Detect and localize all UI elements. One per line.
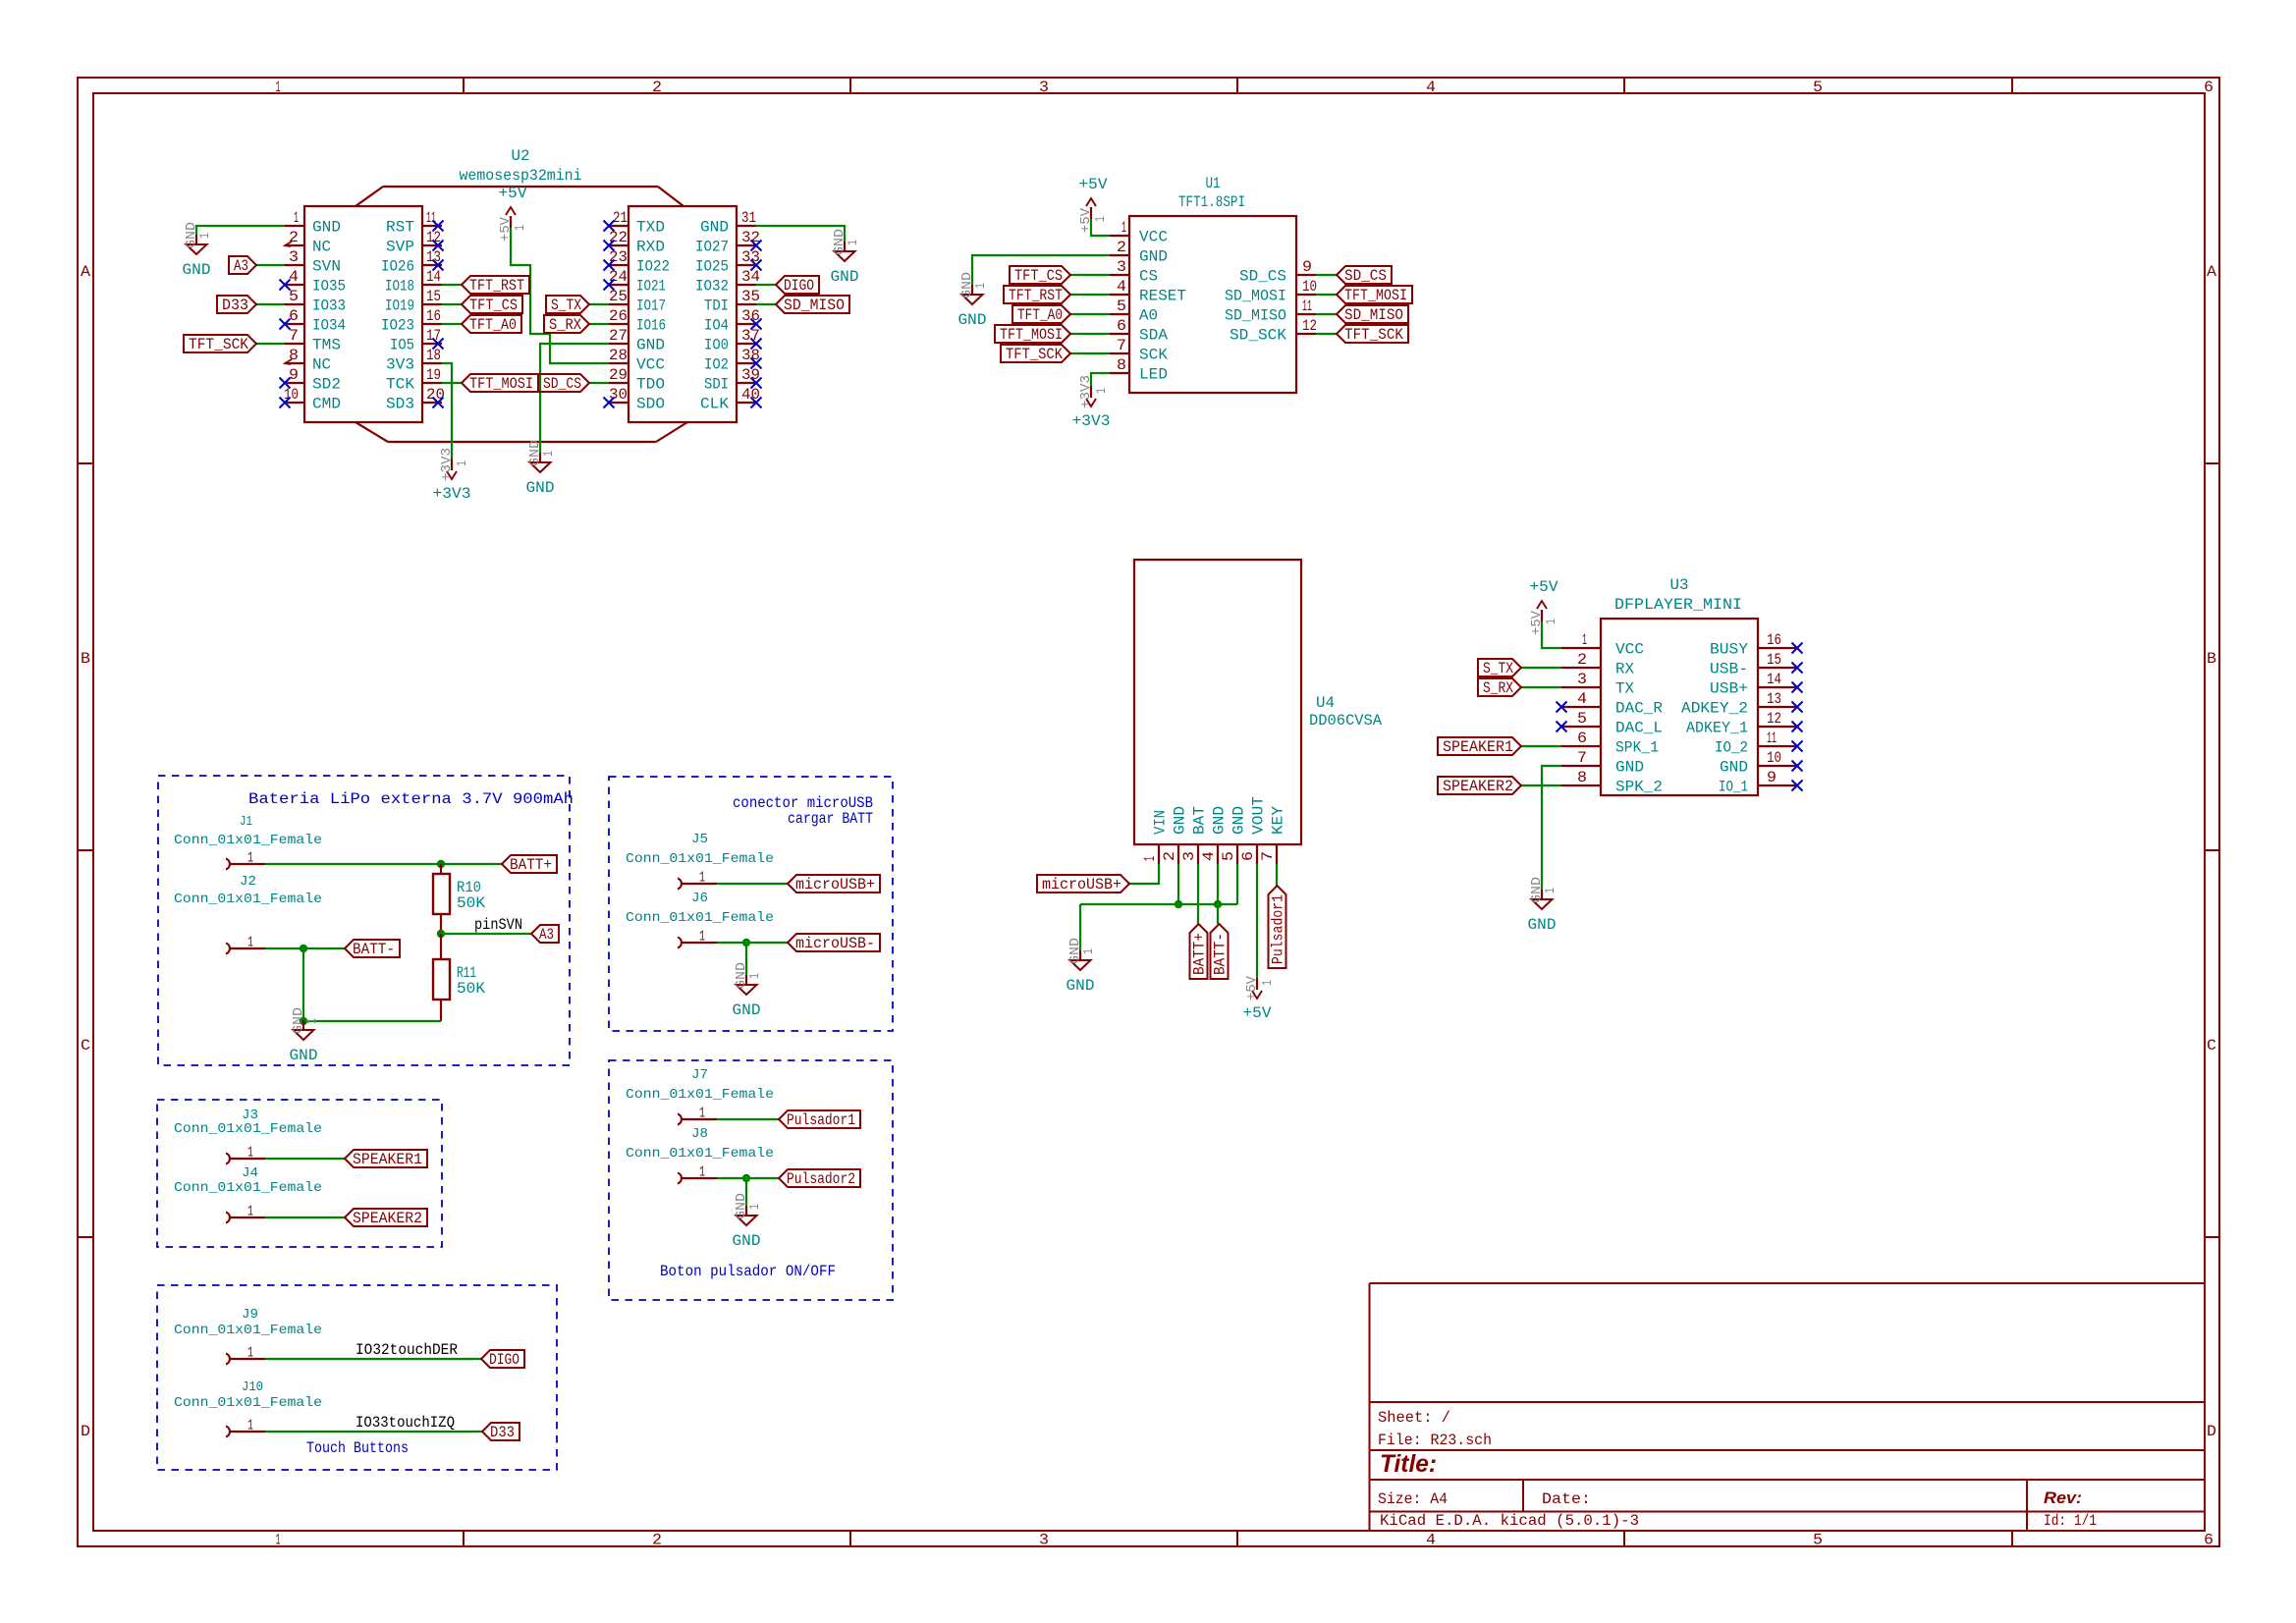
svg-text:1: 1 <box>1544 619 1559 624</box>
U2 pin 9 SD2 <box>285 366 341 394</box>
svg-text:TFT_CS: TFT_CS <box>469 297 518 314</box>
svg-text:IO25: IO25 <box>695 258 729 276</box>
svg-text:Conn_01x01_Female: Conn_01x01_Female <box>174 1395 322 1411</box>
svg-text:TXD: TXD <box>636 219 665 237</box>
svg-text:VIN: VIN <box>1152 810 1170 835</box>
svg-text:GND: GND <box>290 1047 318 1064</box>
svg-text:1: 1 <box>276 1532 281 1549</box>
global label Pulsador2 at J8 <box>779 1169 860 1188</box>
U4 pin 6 VOUT <box>1239 796 1268 864</box>
svg-text:D33: D33 <box>490 1424 515 1441</box>
svg-text:1: 1 <box>247 1345 253 1362</box>
svg-text:wemosesp32mini: wemosesp32mini <box>460 167 582 185</box>
wire stub U2 pin16 <box>442 323 462 325</box>
wire J10 to D33 <box>265 1431 482 1433</box>
svg-text:J1: J1 <box>240 814 252 830</box>
svg-text:1: 1 <box>973 283 989 289</box>
svg-text:1: 1 <box>747 973 763 979</box>
power +5V below U4 <box>1243 975 1277 1022</box>
global label SPEAKER1 at U3 <box>1438 737 1521 756</box>
junction at battery ground <box>300 1017 307 1025</box>
ground GND below U3 <box>1528 877 1559 934</box>
svg-text:microUSB+: microUSB+ <box>1042 876 1121 893</box>
svg-text:1: 1 <box>1093 216 1109 222</box>
svg-text:IO21: IO21 <box>636 278 666 296</box>
svg-text:1: 1 <box>1121 219 1126 237</box>
U1 pin 10 SD_MOSI <box>1225 278 1317 305</box>
svg-text:1: 1 <box>1260 980 1276 986</box>
wire stub D33 to U2 pin5 <box>256 303 285 305</box>
ground GND in battery box <box>290 1007 321 1064</box>
svg-text:5: 5 <box>289 288 299 305</box>
svg-text:10: 10 <box>1767 749 1781 767</box>
wire stub U2 pin25 <box>589 303 609 305</box>
global label TFT_MOSI at U1 left <box>995 325 1070 344</box>
module U2 wemosesp32mini outline <box>304 147 737 442</box>
svg-text:J10: J10 <box>242 1380 263 1395</box>
svg-text:Size: A4: Size: A4 <box>1378 1490 1448 1508</box>
U2 pin 18 3V3 <box>386 347 442 374</box>
svg-text:15: 15 <box>426 288 441 305</box>
wire stub U2 pin35 <box>756 303 776 305</box>
global label microUSB+ at U4 <box>1037 875 1129 893</box>
wire J7 to Pulsador1 <box>717 1118 779 1120</box>
svg-text:DIGO: DIGO <box>784 277 814 295</box>
svg-text:5: 5 <box>1220 851 1237 861</box>
svg-text:14: 14 <box>1767 671 1781 688</box>
U1 pin 9 SD_CS <box>1239 258 1316 286</box>
svg-text:7: 7 <box>1259 851 1277 861</box>
svg-text:DAC_R: DAC_R <box>1615 700 1663 718</box>
svg-text:3: 3 <box>1117 258 1126 276</box>
svg-text:3: 3 <box>1180 851 1198 861</box>
svg-text:9: 9 <box>1302 258 1312 276</box>
svg-text:Pulsador2: Pulsador2 <box>787 1170 855 1188</box>
U1 pin 6 SDA <box>1110 317 1168 345</box>
svg-text:TDI: TDI <box>704 298 729 315</box>
U1 pin 12 SD_SCK <box>1230 317 1317 345</box>
wire U2 pin1 to GND <box>196 226 285 235</box>
svg-text:25: 25 <box>609 288 628 305</box>
svg-text:TFT_CS: TFT_CS <box>1014 267 1063 285</box>
U4 pin 1 VIN <box>1141 810 1170 864</box>
U4 pin 7 KEY <box>1259 806 1287 864</box>
wire U1 pin2 to GND <box>972 255 1110 285</box>
svg-text:D: D <box>81 1423 90 1440</box>
power +5V at U1 <box>1078 176 1109 233</box>
svg-text:Conn_01x01_Female: Conn_01x01_Female <box>174 892 322 907</box>
svg-text:1: 1 <box>699 929 705 946</box>
svg-text:IO32: IO32 <box>695 278 729 296</box>
wire stub U2 pin26 <box>589 323 609 325</box>
svg-text:21: 21 <box>613 209 628 227</box>
global label S_TX at U3 <box>1478 659 1521 677</box>
svg-text:1: 1 <box>846 240 861 245</box>
U2 pin 1 GND <box>285 209 341 237</box>
global label BATT+ <box>502 855 557 874</box>
svg-text:microUSB-: microUSB- <box>795 935 875 952</box>
svg-text:A: A <box>2207 263 2216 281</box>
U4 pin 2 GND <box>1161 806 1189 864</box>
wire stub U1 TFT_SCK right <box>1316 333 1337 335</box>
svg-text:GND: GND <box>1066 977 1095 995</box>
svg-text:2: 2 <box>652 1532 662 1549</box>
wire J5 to microUSB+ <box>717 883 788 885</box>
svg-text:Conn_01x01_Female: Conn_01x01_Female <box>626 1087 774 1103</box>
svg-text:4: 4 <box>1426 79 1436 96</box>
note box speakers <box>157 1100 442 1247</box>
IC U1 TFT1.8SPI body <box>1129 175 1296 393</box>
wire U1 pin8 LED to 3V3 <box>1091 373 1110 386</box>
wire J1 to BATT+ <box>265 863 502 865</box>
svg-text:GND: GND <box>1528 916 1557 934</box>
junction at R10 bottom <box>437 930 445 938</box>
svg-text:4: 4 <box>1426 1532 1436 1549</box>
U2 pin 5 IO33 <box>285 288 346 315</box>
connector J4 Conn_01x01_Female <box>174 1165 322 1223</box>
svg-text:Conn_01x01_Female: Conn_01x01_Female <box>174 1323 322 1338</box>
U2 pin 15 IO19 <box>385 288 442 315</box>
svg-text:SD3: SD3 <box>386 396 414 413</box>
U3 pin 7 GND <box>1561 749 1644 777</box>
svg-text:Date:: Date: <box>1542 1490 1591 1508</box>
svg-text:BATT+: BATT+ <box>1191 933 1209 975</box>
wire to BATT- label <box>1217 904 1219 924</box>
svg-text:3: 3 <box>289 248 299 266</box>
svg-text:GND: GND <box>1211 806 1229 835</box>
svg-text:4: 4 <box>289 268 299 286</box>
connector J7 Conn_01x01_Female <box>626 1067 774 1125</box>
wire U2 pin18 3V3 <box>442 363 452 459</box>
svg-text:Conn_01x01_Female: Conn_01x01_Female <box>174 1121 322 1137</box>
svg-text:1: 1 <box>197 233 213 239</box>
connector J1 Conn_01x01_Female <box>174 814 322 870</box>
U1 pin 2 GND <box>1110 239 1168 266</box>
svg-text:27: 27 <box>609 327 628 345</box>
power +5V at U2 <box>498 185 528 242</box>
ground GND in microUSB box <box>733 962 764 1019</box>
svg-text:SD_SCK: SD_SCK <box>1230 327 1286 345</box>
wire U4 pin6 VOUT to +5V <box>1256 864 1258 978</box>
svg-text:RST: RST <box>386 219 414 237</box>
svg-text:microUSB+: microUSB+ <box>795 876 875 893</box>
svg-text:TFT_RST: TFT_RST <box>1009 287 1063 304</box>
U4 pin 3 BAT <box>1180 806 1209 864</box>
svg-text:6: 6 <box>1239 851 1257 861</box>
U2 pin 36 IO4 <box>704 307 760 335</box>
svg-text:TX: TX <box>1615 680 1634 698</box>
svg-text:+5V: +5V <box>1530 578 1558 596</box>
svg-text:2: 2 <box>652 79 662 96</box>
svg-text:ADKEY_1: ADKEY_1 <box>1686 720 1748 737</box>
U2 pin 25 IO17 <box>609 288 666 315</box>
svg-text:IO16: IO16 <box>636 317 666 335</box>
svg-text:5: 5 <box>1813 1532 1823 1549</box>
wire stub U1 TFT_MOSI <box>1070 333 1110 335</box>
U3 pin 3 TX <box>1561 671 1634 698</box>
svg-text:8: 8 <box>1577 769 1587 786</box>
svg-text:SD_CS: SD_CS <box>1344 267 1387 285</box>
svg-text:5: 5 <box>1577 710 1587 728</box>
svg-text:D: D <box>2207 1423 2216 1440</box>
svg-text:CMD: CMD <box>312 396 341 413</box>
svg-text:34: 34 <box>741 268 760 286</box>
U3 pin 12 ADKEY_1 <box>1686 710 1797 737</box>
wire stub U2 pin19 <box>442 382 462 384</box>
wire stub U1 TFT_SCK <box>1070 352 1110 354</box>
ground GND below U4 <box>1066 938 1098 995</box>
svg-text:4: 4 <box>1200 851 1218 861</box>
svg-text:8: 8 <box>289 347 299 364</box>
svg-text:IO22: IO22 <box>636 258 670 276</box>
svg-text:LED: LED <box>1139 366 1168 384</box>
svg-text:U2: U2 <box>512 147 530 165</box>
svg-text:1: 1 <box>1582 631 1587 649</box>
U1 pin 5 A0 <box>1110 298 1158 325</box>
svg-text:RESET: RESET <box>1139 288 1186 305</box>
svg-text:1: 1 <box>699 1106 705 1122</box>
wire J6 to ground <box>745 943 747 975</box>
global label TFT_SCK at U1 left <box>1001 345 1070 363</box>
svg-text:S_RX: S_RX <box>549 316 581 334</box>
U2 pin 31 GND <box>700 209 756 237</box>
svg-text:S_TX: S_TX <box>1483 660 1513 677</box>
svg-text:11: 11 <box>1767 730 1777 747</box>
svg-text:D33: D33 <box>222 297 248 314</box>
svg-text:GND: GND <box>831 268 859 286</box>
svg-text:SPK_1: SPK_1 <box>1615 739 1659 757</box>
svg-text:1: 1 <box>276 79 281 96</box>
wire J9 to DIGO <box>265 1358 481 1360</box>
svg-text:VCC: VCC <box>1139 229 1168 246</box>
svg-text:A3: A3 <box>234 257 248 275</box>
svg-text:GND: GND <box>1172 806 1189 835</box>
ground GND at U2 pin1 <box>183 222 214 279</box>
svg-text:pinSVN: pinSVN <box>474 916 522 934</box>
svg-text:3V3: 3V3 <box>386 356 414 374</box>
U2 pin 21 TXD <box>609 209 665 237</box>
wire stub TFT_SCK to U2 pin7 <box>256 343 285 345</box>
U2 pin 20 SD3 <box>386 386 445 413</box>
svg-text:1: 1 <box>304 1018 320 1024</box>
note box conector microUSB <box>609 777 893 1031</box>
svg-text:J4: J4 <box>242 1165 258 1181</box>
svg-text:1: 1 <box>513 225 528 231</box>
svg-text:Bateria LiPo externa 3.7V 900m: Bateria LiPo externa 3.7V 900mAh <box>248 790 574 808</box>
wire stub U4 pin1 VIN <box>1129 864 1159 884</box>
svg-text:Boton pulsador ON/OFF: Boton pulsador ON/OFF <box>660 1263 836 1280</box>
U1 pin 7 SCK <box>1110 337 1168 364</box>
svg-text:TFT_MOSI: TFT_MOSI <box>1344 287 1407 304</box>
svg-text:USB+: USB+ <box>1710 680 1748 698</box>
svg-text:BUSY: BUSY <box>1710 641 1748 659</box>
global label SD_CS at U1 right <box>1337 266 1392 285</box>
svg-text:+3V3: +3V3 <box>1078 375 1094 408</box>
svg-text:5: 5 <box>1813 79 1823 96</box>
global label A3 at U2 <box>229 256 256 275</box>
global label BATT- <box>345 940 400 958</box>
svg-text:SDA: SDA <box>1139 327 1168 345</box>
svg-text:GND: GND <box>636 337 665 354</box>
svg-text:IO4: IO4 <box>704 317 729 335</box>
wire J8 to Pulsador2 <box>717 1177 779 1179</box>
module U4 DD06CVSA body <box>1134 560 1382 844</box>
wire stub U1 SD_CS right <box>1316 274 1337 276</box>
U2 pin 16 IO23 <box>381 307 442 335</box>
ground GND in pulsador box <box>733 1193 764 1250</box>
wire stub U2 pin15 <box>442 303 462 305</box>
wire stub U3 S_TX <box>1521 667 1561 669</box>
svg-text:GND: GND <box>700 219 729 237</box>
svg-text:A0: A0 <box>1139 307 1158 325</box>
note box Bateria LiPo <box>158 776 570 1065</box>
svg-text:TFT_MOSI: TFT_MOSI <box>469 375 533 393</box>
svg-text:6: 6 <box>2204 79 2214 96</box>
global label S_TX at U2 <box>546 296 589 314</box>
svg-text:Sheet: /: Sheet: / <box>1378 1409 1450 1427</box>
svg-text:RXD: RXD <box>636 239 665 256</box>
note box Boton pulsador <box>609 1060 893 1300</box>
U2 pin 22 RXD <box>609 229 665 256</box>
IC U3 DFPLAYER_MINI body <box>1601 576 1758 795</box>
svg-text:Conn_01x01_Female: Conn_01x01_Female <box>626 851 774 867</box>
svg-text:SPEAKER2: SPEAKER2 <box>1443 778 1513 795</box>
global label microUSB+ at J5 <box>788 875 880 893</box>
svg-text:IO2: IO2 <box>704 356 729 374</box>
svg-text:TCK: TCK <box>386 376 414 394</box>
svg-text:Conn_01x01_Female: Conn_01x01_Female <box>626 1146 774 1162</box>
wire stub U2 pin34 <box>756 284 776 286</box>
no-connect marks U2 left block <box>280 221 444 408</box>
global label SD_MISO at U1 right <box>1337 305 1408 324</box>
svg-text:File: R23.sch: File: R23.sch <box>1378 1432 1492 1449</box>
U3 pin 14 USB+ <box>1710 671 1797 698</box>
svg-text:U1: U1 <box>1206 175 1221 192</box>
svg-text:IO_1: IO_1 <box>1719 779 1748 796</box>
svg-text:BATT-: BATT- <box>353 941 395 958</box>
svg-text:1: 1 <box>1094 388 1110 394</box>
svg-text:1: 1 <box>247 1418 253 1434</box>
svg-text:SD_MOSI: SD_MOSI <box>1225 288 1286 305</box>
svg-text:IO27: IO27 <box>695 239 729 256</box>
U3 pin 4 DAC_R <box>1561 690 1663 718</box>
wire stub U3 S_RX <box>1521 686 1561 688</box>
U2 pin 11 RST <box>386 209 442 237</box>
svg-text:Conn_01x01_Female: Conn_01x01_Female <box>174 833 322 848</box>
svg-text:IO18: IO18 <box>385 278 414 296</box>
svg-text:B: B <box>2207 650 2216 668</box>
svg-text:12: 12 <box>1302 317 1317 335</box>
U3 pin 10 GND <box>1720 749 1797 777</box>
svg-text:J5: J5 <box>691 832 708 847</box>
power +3V3 at U1 <box>1072 375 1111 430</box>
connector J6 Conn_01x01_Female <box>626 891 774 948</box>
U1 pin 1 VCC <box>1110 219 1168 246</box>
svg-text:11: 11 <box>426 209 436 227</box>
svg-text:12: 12 <box>1767 710 1781 728</box>
U2 pin 14 IO18 <box>385 268 442 296</box>
svg-text:NC: NC <box>312 356 331 374</box>
U2 pin 28 VCC <box>609 347 665 374</box>
svg-text:SD_CS: SD_CS <box>543 375 581 393</box>
power +3V3 below U2 <box>433 448 471 503</box>
global label TFT_RST at U1 left <box>1004 286 1070 304</box>
svg-text:U3: U3 <box>1670 576 1689 594</box>
wire +5V to U2 pin28 VCC <box>511 228 609 363</box>
wire stub U2 pin29 <box>589 382 609 384</box>
svg-text:Conn_01x01_Female: Conn_01x01_Female <box>174 1180 322 1196</box>
svg-text:GND: GND <box>1139 248 1168 266</box>
U2 pin 19 TCK <box>386 366 442 394</box>
svg-text:16: 16 <box>426 307 441 325</box>
U1 pin 8 LED <box>1110 356 1168 384</box>
svg-text:8: 8 <box>1117 356 1126 374</box>
connector J3 Conn_01x01_Female <box>174 1108 322 1164</box>
U2 pin 40 CLK <box>700 386 760 413</box>
svg-text:+5V: +5V <box>1079 176 1108 193</box>
svg-text:GND: GND <box>526 479 555 497</box>
svg-text:C: C <box>81 1037 90 1055</box>
svg-text:+5V: +5V <box>1243 1004 1272 1022</box>
svg-text:GND: GND <box>1720 759 1748 777</box>
global label DIGO at U2 <box>776 276 819 295</box>
U2 pin 10 CMD <box>284 386 341 413</box>
svg-text:26: 26 <box>609 307 628 325</box>
ground GND at U1 <box>958 272 990 329</box>
global label D33 at U2 <box>217 296 256 314</box>
wire pinSVN to A3 <box>441 933 531 935</box>
svg-text:BAT: BAT <box>1191 806 1209 835</box>
wire stub A3 to U2 pin3 <box>256 264 285 266</box>
svg-text:13: 13 <box>1767 690 1781 708</box>
U3 pin 9 IO_1 <box>1719 769 1797 796</box>
svg-text:11: 11 <box>1302 298 1312 315</box>
svg-text:1: 1 <box>247 1204 253 1220</box>
svg-text:1: 1 <box>699 1164 705 1181</box>
svg-text:CLK: CLK <box>700 396 729 413</box>
svg-text:GND: GND <box>183 261 211 279</box>
svg-text:SD_MISO: SD_MISO <box>1344 306 1403 324</box>
svg-text:SPK_2: SPK_2 <box>1615 779 1663 796</box>
svg-text:GND: GND <box>733 1232 761 1250</box>
svg-text:50K: 50K <box>457 980 485 998</box>
svg-text:4: 4 <box>1577 690 1587 708</box>
global label BATT- below U4 <box>1211 924 1230 979</box>
svg-text:1: 1 <box>247 1145 253 1162</box>
global label TFT_A0 at U2 <box>462 315 521 334</box>
svg-text:9: 9 <box>1767 769 1777 786</box>
svg-text:BATT-: BATT- <box>1212 933 1230 975</box>
U2 pin 17 IO5 <box>390 327 442 354</box>
power +5V at U3 <box>1529 578 1559 635</box>
svg-text:J7: J7 <box>691 1067 708 1083</box>
wire stub U1 SD_MISO right <box>1316 313 1337 315</box>
svg-text:2: 2 <box>1161 851 1178 861</box>
global label A3 in battery box <box>531 925 559 944</box>
svg-text:S_TX: S_TX <box>551 297 581 314</box>
svg-text:SD2: SD2 <box>312 376 341 394</box>
svg-text:Id: 1/1: Id: 1/1 <box>2044 1512 2097 1530</box>
svg-text:+3V3: +3V3 <box>1072 412 1111 430</box>
resistor R10 50K <box>433 864 485 934</box>
svg-text:USB-: USB- <box>1710 661 1748 678</box>
wire stub U1 TFT_MOSI right <box>1316 294 1337 296</box>
svg-text:+3V3: +3V3 <box>439 448 455 481</box>
svg-text:6: 6 <box>2204 1532 2214 1549</box>
svg-text:GND: GND <box>958 311 987 329</box>
U3 pin 8 SPK_2 <box>1561 769 1663 796</box>
svg-text:KiCad E.D.A. kicad (5.0.1)-3: KiCad E.D.A. kicad (5.0.1)-3 <box>1380 1512 1639 1530</box>
